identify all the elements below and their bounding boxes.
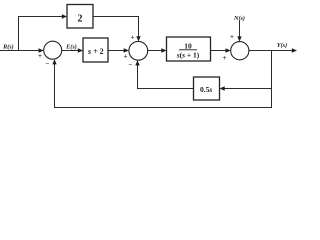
svg-text:R(s): R(s) [2, 44, 14, 51]
svg-text:s + 2: s + 2 [87, 47, 104, 56]
svg-text:−: − [46, 60, 50, 68]
svg-text:0.5s: 0.5s [200, 85, 212, 94]
svg-text:−: − [129, 61, 133, 69]
svg-text:+: + [223, 54, 227, 62]
svg-text:s(s + 1): s(s + 1) [176, 51, 200, 60]
svg-text:2: 2 [78, 13, 83, 24]
svg-text:N(s): N(s) [233, 15, 245, 22]
svg-text:E(s): E(s) [65, 44, 77, 51]
svg-text:+: + [230, 33, 234, 41]
svg-text:10: 10 [184, 42, 192, 51]
svg-text:+: + [38, 52, 42, 60]
svg-text:Y(s): Y(s) [277, 42, 287, 49]
svg-text:+: + [131, 34, 135, 42]
svg-text:+: + [124, 53, 128, 61]
